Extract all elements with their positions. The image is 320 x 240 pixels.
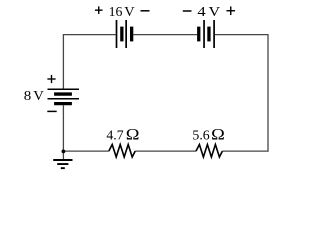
svg-text:8: 8 [24, 88, 32, 103]
wire ground stub [62, 151, 64, 159]
ground [53, 160, 72, 168]
resistor R1 4.7 ohm [109, 145, 135, 158]
svg-text:V: V [209, 4, 221, 19]
svg-text:Ω: Ω [211, 126, 225, 143]
wire top-left segment [63, 34, 115, 36]
wire left lower [62, 105, 64, 151]
node junction dot [62, 150, 66, 154]
wire right side [267, 34, 269, 152]
wire top-middle segment [133, 34, 197, 36]
wire left upper [62, 34, 64, 89]
svg-text:Ω: Ω [126, 126, 140, 143]
wire bottom-right segment [222, 150, 268, 152]
wire bottom-left segment [63, 150, 108, 152]
label - (V2 minus) [183, 10, 192, 12]
svg-text:16: 16 [109, 4, 123, 19]
svg-text:V: V [33, 88, 44, 103]
label - (V3 minus) [47, 110, 56, 112]
battery V2 4V [199, 20, 214, 48]
battery V1 16V [117, 20, 132, 48]
label - (V1 minus) [141, 10, 150, 12]
label + (V3 plus) [47, 75, 55, 83]
label + (V2 plus) [226, 6, 235, 15]
wire top-right segment [215, 34, 269, 36]
svg-text:V: V [124, 4, 134, 19]
svg-text:4: 4 [197, 4, 205, 19]
wire bottom-middle segment [135, 150, 196, 152]
svg-text:5.6: 5.6 [192, 127, 209, 142]
battery V3 8V [48, 89, 80, 103]
label + (V1 plus) [95, 6, 103, 14]
svg-text:4.7: 4.7 [106, 127, 123, 142]
resistor R2 5.6 ohm [196, 145, 222, 158]
